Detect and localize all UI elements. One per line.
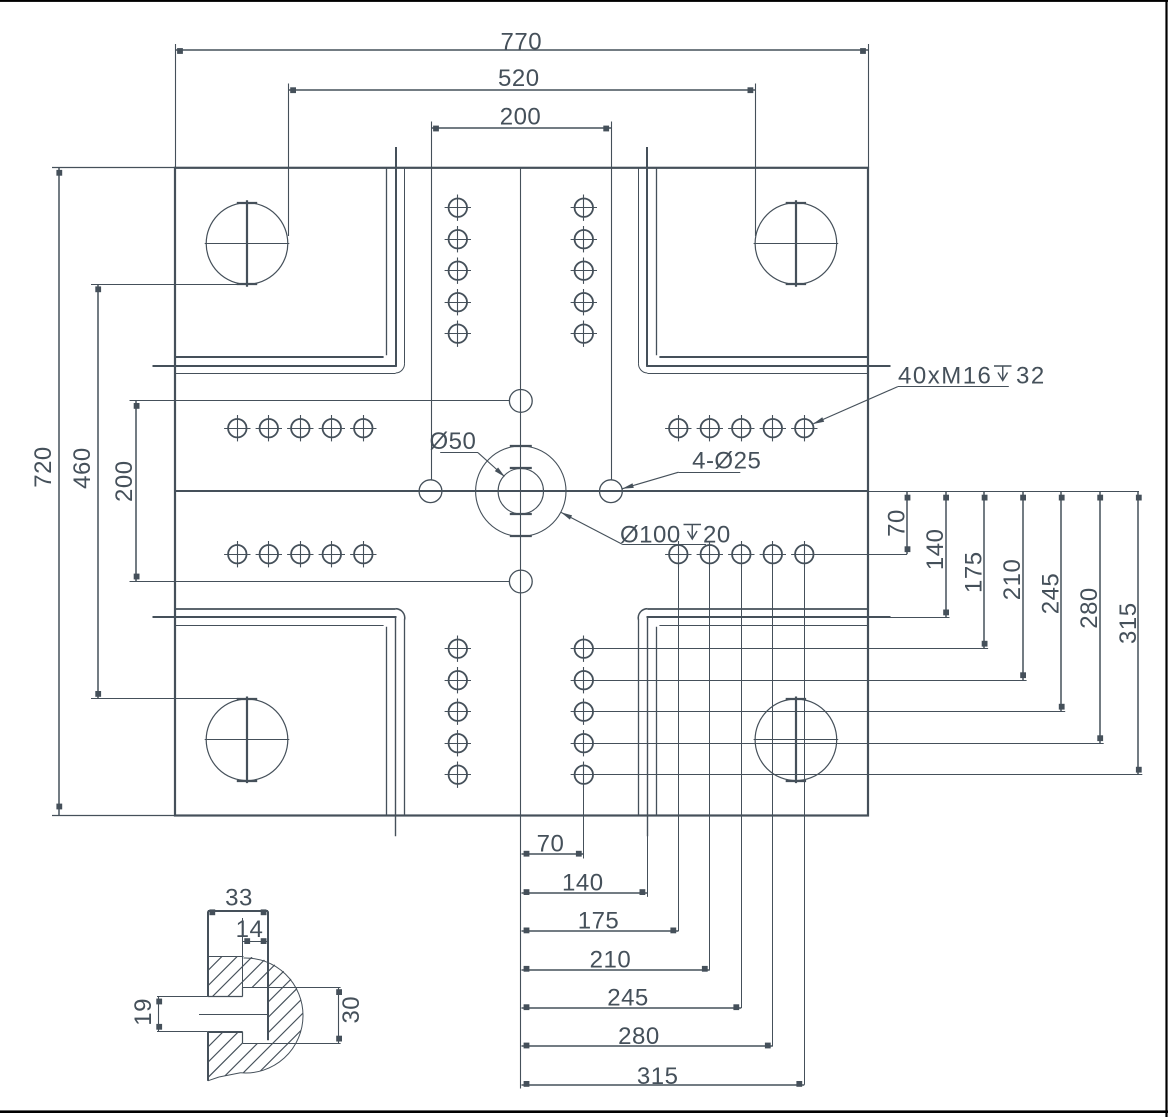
dim 520 top bbox=[288, 65, 755, 236]
dim 720 left bbox=[30, 168, 175, 816]
svg-text:200: 200 bbox=[111, 460, 138, 502]
svg-text:200: 200 bbox=[500, 103, 542, 130]
dim 280 right bbox=[1076, 491, 1103, 743]
label D50 with leader bbox=[429, 428, 505, 477]
svg-text:175: 175 bbox=[961, 551, 988, 593]
center bore D50 bbox=[498, 469, 543, 514]
label D100 depth20 with leader bbox=[561, 512, 731, 548]
hole D25 #3 bbox=[509, 390, 532, 413]
svg-text:280: 280 bbox=[618, 1023, 660, 1050]
dim 245 right bbox=[1038, 491, 1065, 712]
svg-text:315: 315 bbox=[637, 1063, 679, 1090]
horizontal centerline bbox=[175, 490, 1139, 493]
svg-text:770: 770 bbox=[501, 29, 543, 56]
svg-text:280: 280 bbox=[1076, 587, 1103, 629]
corner circle TR bbox=[754, 200, 839, 287]
corner notch BR bbox=[638, 609, 890, 837]
dim 200 left bbox=[111, 401, 509, 582]
conn row210 right bbox=[593, 680, 1027, 682]
conn notch140 right bbox=[868, 617, 950, 619]
dim 175 bottom bbox=[522, 907, 679, 934]
dim 14 section bbox=[236, 916, 268, 988]
svg-text:Ø50: Ø50 bbox=[429, 428, 476, 455]
dim 140 bottom bbox=[522, 869, 648, 896]
corner notch TR bbox=[638, 147, 890, 374]
conn row245 right bbox=[593, 711, 1065, 713]
dim 140 right bbox=[922, 491, 949, 617]
conn col245 bottom bbox=[741, 564, 743, 1009]
dim 200 top bbox=[431, 103, 612, 479]
svg-text:460: 460 bbox=[69, 447, 96, 489]
conn col70 bottom bbox=[583, 784, 585, 859]
svg-text:30: 30 bbox=[338, 996, 365, 1024]
dim 770 top bbox=[175, 29, 869, 168]
corner notch TL bbox=[153, 147, 405, 374]
svg-text:32: 32 bbox=[1016, 363, 1046, 390]
section outline bbox=[208, 911, 303, 1081]
svg-text:315: 315 bbox=[1115, 602, 1142, 644]
conn row315 right bbox=[593, 774, 1142, 776]
conn row70 right bbox=[812, 554, 907, 556]
dim 210 right bbox=[999, 491, 1026, 680]
dim 460 left bbox=[69, 284, 248, 699]
conn row280 right bbox=[593, 743, 1104, 745]
svg-text:140: 140 bbox=[562, 869, 604, 896]
dim 280 bottom bbox=[522, 1023, 773, 1050]
svg-text:19: 19 bbox=[130, 998, 157, 1026]
svg-text:70: 70 bbox=[537, 830, 565, 857]
svg-text:14: 14 bbox=[236, 916, 264, 943]
svg-text:40xM16: 40xM16 bbox=[898, 363, 992, 390]
dim 210 bottom bbox=[522, 947, 710, 974]
hole D25 #4 bbox=[509, 570, 532, 593]
hole D25 #2 bbox=[600, 480, 623, 503]
counterbore D100 bbox=[476, 446, 566, 536]
hole D25 #1 bbox=[419, 480, 442, 503]
svg-text:33: 33 bbox=[225, 884, 253, 911]
dim 30 section bbox=[336, 988, 365, 1044]
svg-text:70: 70 bbox=[884, 509, 911, 537]
svg-text:245: 245 bbox=[1038, 573, 1065, 615]
dim 315 right bbox=[1115, 491, 1142, 775]
conn col175 bottom bbox=[678, 564, 680, 932]
svg-text:720: 720 bbox=[30, 446, 57, 488]
corner circle BL bbox=[205, 697, 290, 784]
dim 315 bottom bbox=[522, 1063, 805, 1090]
40x M16 tapped holes bbox=[224, 195, 817, 788]
svg-text:210: 210 bbox=[590, 947, 632, 974]
conn col280 bottom bbox=[772, 564, 774, 1047]
dim 245 bottom bbox=[522, 984, 742, 1011]
label 4-D25 with leader bbox=[622, 448, 761, 489]
corner circle TL bbox=[205, 200, 290, 287]
svg-text:4-Ø25: 4-Ø25 bbox=[692, 448, 761, 475]
dim 175 right bbox=[961, 491, 988, 649]
svg-text:245: 245 bbox=[607, 984, 649, 1011]
corner notch BL bbox=[153, 609, 405, 837]
svg-text:20: 20 bbox=[703, 521, 731, 548]
conn row175 right bbox=[593, 648, 988, 650]
corner circle BR bbox=[754, 697, 839, 784]
vertical centerline bbox=[520, 168, 522, 1089]
dim 19 section bbox=[130, 997, 162, 1031]
svg-text:520: 520 bbox=[498, 65, 540, 92]
dim 33 section bbox=[209, 884, 266, 915]
center bore ticks bbox=[510, 446, 532, 536]
section hatching bbox=[0, 940, 407, 1100]
svg-text:175: 175 bbox=[578, 907, 620, 934]
T-slot profile bbox=[157, 988, 341, 1044]
svg-text:140: 140 bbox=[922, 529, 949, 571]
dim 70 bottom bbox=[522, 830, 584, 857]
conn col315 bottom bbox=[804, 564, 806, 1085]
dim 70 right bbox=[884, 491, 911, 554]
conn notch140 bottom bbox=[647, 836, 649, 897]
label 40xM16 depth32 with leader bbox=[813, 363, 1046, 425]
plate outline 770x720 bbox=[175, 168, 868, 816]
svg-text:210: 210 bbox=[999, 559, 1026, 601]
conn col210 bottom bbox=[709, 564, 711, 970]
